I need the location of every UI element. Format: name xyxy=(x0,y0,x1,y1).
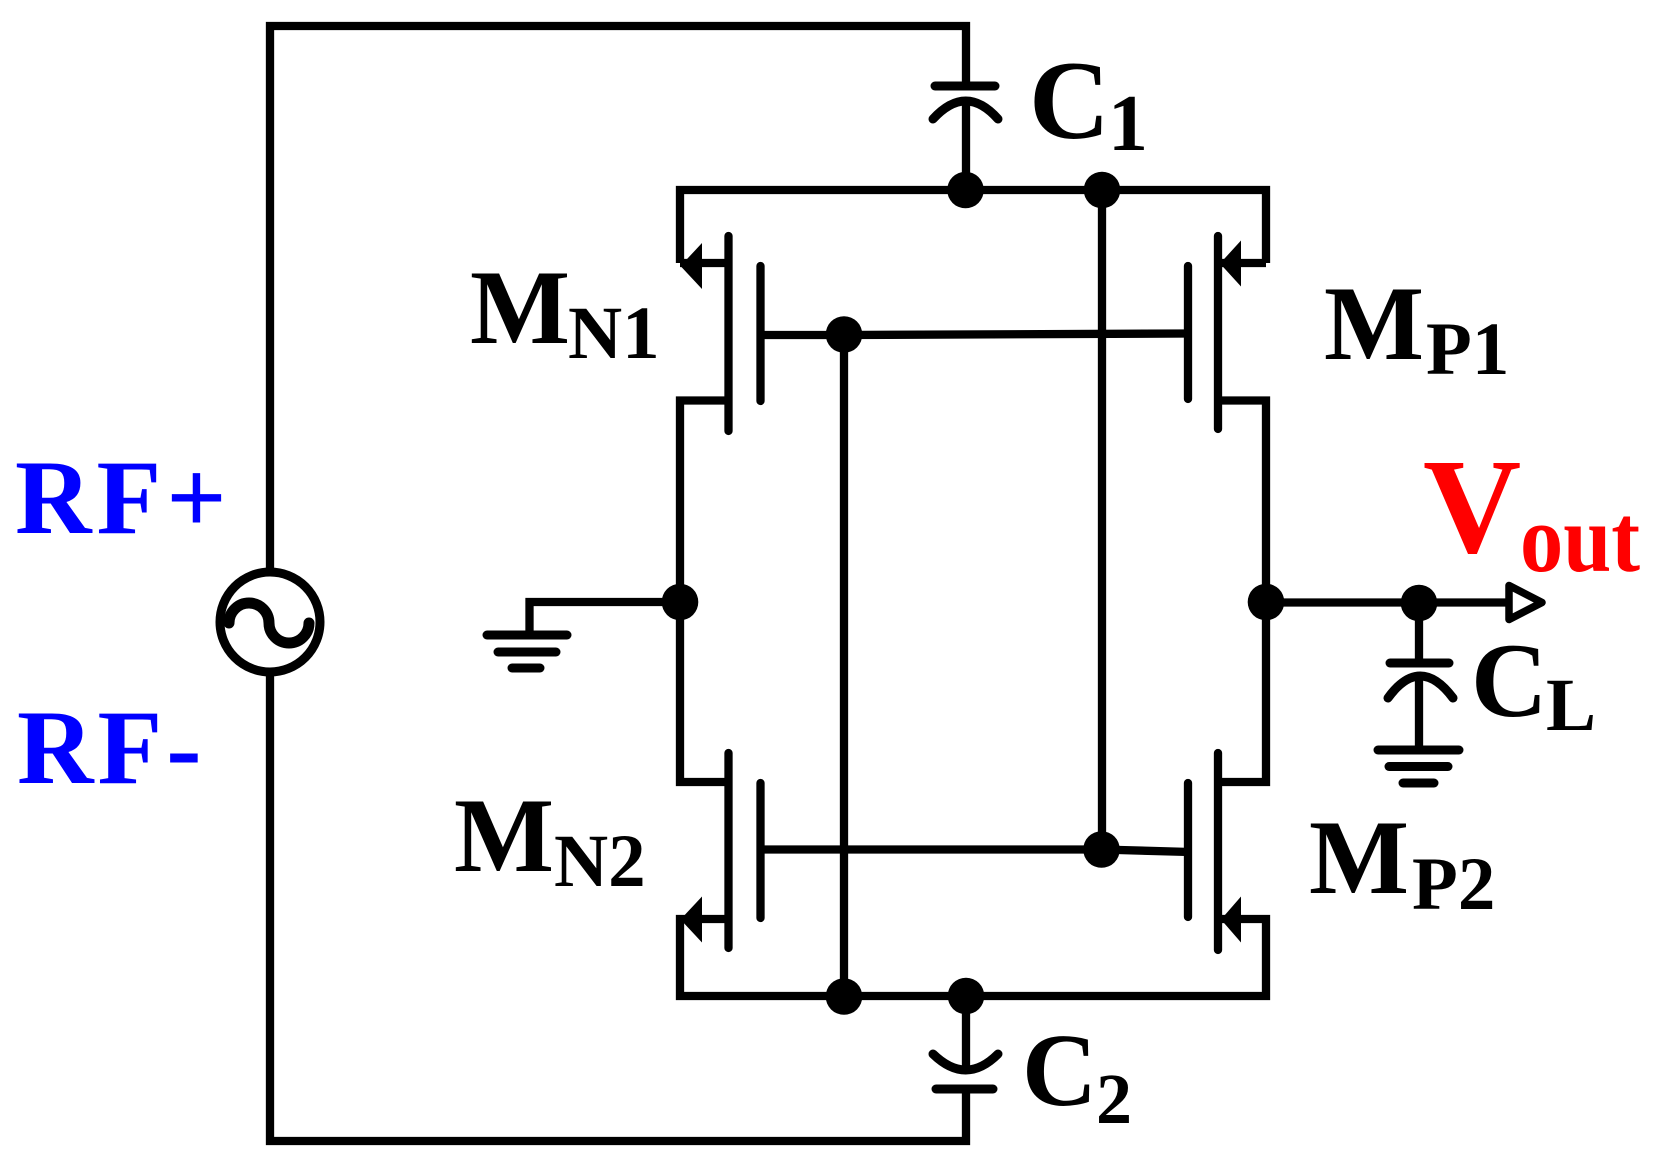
svg-text:M: M xyxy=(454,777,554,894)
svg-text:M: M xyxy=(1324,265,1424,382)
svg-text:C: C xyxy=(1022,1013,1097,1128)
svg-text:P1: P1 xyxy=(1426,308,1509,391)
svg-text:out: out xyxy=(1520,486,1640,592)
svg-text:C: C xyxy=(1471,622,1548,739)
svg-text:C: C xyxy=(1029,39,1110,163)
svg-text:RF-: RF- xyxy=(17,689,206,806)
svg-text:N1: N1 xyxy=(568,292,660,375)
svg-text:M: M xyxy=(470,249,570,366)
svg-text:2: 2 xyxy=(1096,1059,1132,1139)
svg-text:N2: N2 xyxy=(554,820,646,903)
svg-text:L: L xyxy=(1546,664,1596,747)
svg-text:RF+: RF+ xyxy=(15,439,232,556)
svg-text:1: 1 xyxy=(1108,80,1148,168)
svg-text:V: V xyxy=(1423,432,1521,582)
svg-text:M: M xyxy=(1309,799,1409,916)
svg-text:P2: P2 xyxy=(1412,843,1495,926)
